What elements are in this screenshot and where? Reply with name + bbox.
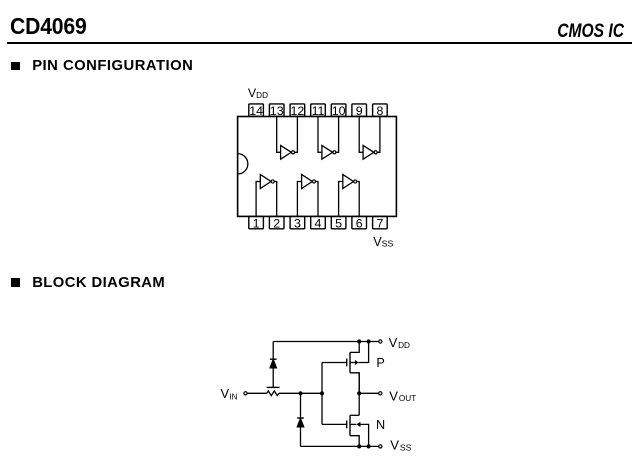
pin-1 index notch <box>238 154 248 175</box>
svg-text:7: 7 <box>376 216 383 230</box>
svg-text:P: P <box>376 356 384 370</box>
inverter U6 (pins 5-6) output wire <box>357 182 359 217</box>
inverter U3 (pins 9-8) input wire <box>359 117 363 153</box>
VDD rail wire <box>273 341 378 343</box>
VSS pin label <box>373 235 393 249</box>
transistor P gate bar <box>346 359 348 367</box>
pin 11 <box>311 104 326 118</box>
section heading PIN CONFIGURATION <box>32 59 193 74</box>
inverter U5 (pins 3-4) output wire <box>316 182 318 217</box>
inverter U3 (pins 9-8) output wire <box>377 117 380 153</box>
VIN label <box>221 386 238 402</box>
pin 7 <box>373 216 388 230</box>
VOUT label <box>389 388 416 403</box>
svg-text:8: 8 <box>376 104 383 118</box>
wire gate bus vertical <box>321 363 323 425</box>
junction P body to VDD <box>367 339 371 343</box>
wire to VOUT terminal <box>359 392 379 394</box>
junction gate bus / input <box>320 391 324 395</box>
inverter U1 (pins 13-12) output wire <box>295 117 298 153</box>
svg-text:VIN: VIN <box>221 386 238 402</box>
inverter U4 (pins 1-2) triangle <box>260 174 271 188</box>
wire D1 cathode to VDD rail <box>272 342 274 360</box>
inverter U1 (pins 13-12) triangle <box>281 145 292 159</box>
inverter U4 (pins 1-2) output wire <box>275 182 277 217</box>
svg-text:N: N <box>376 418 385 432</box>
section bullet 2 <box>11 278 20 287</box>
svg-text:12: 12 <box>291 104 305 118</box>
inverter U6 (pins 5-6) bubble <box>354 180 357 183</box>
inverter U2 (pins 11-10) input wire <box>318 117 322 153</box>
junction N source to VSS <box>357 444 361 448</box>
transistor P body arrow <box>350 342 369 366</box>
inverter U4 (pins 1-2) input wire <box>256 182 260 217</box>
svg-text:9: 9 <box>356 104 363 118</box>
inverter U6 (pins 5-6) input wire <box>339 182 343 217</box>
pin 13 <box>269 104 284 118</box>
VDD label <box>389 335 410 350</box>
pin 9 <box>352 104 367 118</box>
svg-text:13: 13 <box>270 104 284 118</box>
transistor N drain wire <box>350 414 359 416</box>
transistor P gate wire <box>322 362 347 364</box>
diode D2 wire from input node <box>300 393 302 418</box>
svg-text:VDD: VDD <box>389 335 410 350</box>
inverter U1 (pins 13-12) input wire <box>277 117 281 153</box>
transistor N channel bar <box>349 415 351 435</box>
svg-text:6: 6 <box>356 216 363 230</box>
VIN terminal <box>244 392 247 395</box>
inverter U5 (pins 3-4) triangle <box>302 174 313 188</box>
svg-text:11: 11 <box>312 104 325 118</box>
IC body outline <box>238 117 397 217</box>
inverter U4 (pins 1-2) bubble <box>271 180 274 183</box>
pin 6 <box>352 216 367 230</box>
junction VOUT <box>357 391 361 395</box>
inverter U1 (pins 13-12) bubble <box>291 151 294 154</box>
transistor N gate bar <box>346 421 348 429</box>
VSS label <box>390 438 411 453</box>
inverter U6 (pins 5-6) triangle <box>343 174 354 188</box>
svg-text:3: 3 <box>294 216 301 230</box>
svg-text:VOUT: VOUT <box>389 388 416 403</box>
wire D1 anode <box>272 368 274 387</box>
transistor P drain wire <box>350 373 359 394</box>
pin 12 <box>290 104 305 118</box>
header rule <box>7 42 632 44</box>
transistor P label <box>376 356 384 370</box>
svg-text:5: 5 <box>335 216 342 230</box>
pin 2 <box>269 216 284 230</box>
svg-text:VSS: VSS <box>390 438 411 453</box>
inverter U2 (pins 11-10) triangle <box>322 145 333 159</box>
wire VIN to resistor <box>247 392 266 394</box>
VSS rail wire <box>301 445 379 447</box>
VDD pin label <box>248 86 268 100</box>
pin 10 <box>331 104 346 118</box>
title CMOS IC <box>557 22 624 41</box>
pin 5 <box>331 216 346 230</box>
transistor P source wire <box>350 342 359 353</box>
diode D1 <box>270 359 277 368</box>
junction P source to VDD <box>357 339 361 343</box>
resistor R1 <box>267 391 279 396</box>
svg-text:1: 1 <box>253 216 260 230</box>
svg-text:14: 14 <box>249 104 263 118</box>
pin 1 <box>249 216 264 230</box>
wire D2 anode to VSS rail <box>300 427 302 446</box>
section bullet 1 <box>11 62 20 71</box>
transistor N body arrow <box>350 422 369 447</box>
inverter U3 (pins 9-8) bubble <box>374 151 377 154</box>
pin 8 <box>373 104 388 118</box>
inverter U2 (pins 11-10) bubble <box>333 151 336 154</box>
svg-text:10: 10 <box>332 104 346 118</box>
VDD terminal <box>379 340 382 343</box>
transistor P channel bar <box>349 352 351 372</box>
svg-text:VDD: VDD <box>248 86 268 100</box>
pin 14 <box>249 104 264 118</box>
svg-text:VSS: VSS <box>373 235 393 249</box>
transistor N source wire <box>350 436 359 447</box>
junction N body to VSS <box>367 444 371 448</box>
pin 4 <box>311 216 326 230</box>
svg-text:2: 2 <box>273 216 280 230</box>
pin 3 <box>290 216 305 230</box>
diode D1 anode plate <box>267 386 280 388</box>
transistor N gate wire <box>322 423 347 425</box>
VSS terminal <box>379 445 382 448</box>
wire resistor to gate node <box>279 392 322 394</box>
wire P drain to N drain <box>358 373 360 416</box>
inverter U5 (pins 3-4) input wire <box>297 182 301 217</box>
inverter U5 (pins 3-4) bubble <box>312 180 315 183</box>
inverter U3 (pins 9-8) triangle <box>363 145 374 159</box>
title CD4069 <box>10 15 87 38</box>
inverter U2 (pins 11-10) output wire <box>336 117 339 153</box>
transistor N label <box>376 418 385 432</box>
diode D2 <box>297 418 304 427</box>
section heading BLOCK DIAGRAM <box>32 276 165 291</box>
junction D2 / input <box>298 391 302 395</box>
VOUT terminal <box>379 392 382 395</box>
svg-text:4: 4 <box>315 216 322 230</box>
